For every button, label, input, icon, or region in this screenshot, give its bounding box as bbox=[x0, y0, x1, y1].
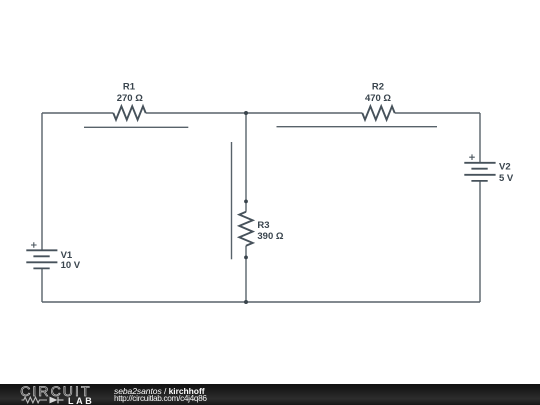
junction dot top node bbox=[244, 111, 248, 115]
R3 bottom terminal dot bbox=[244, 256, 248, 260]
wire R1 to R2 through top junction bbox=[146, 112, 363, 114]
svg-text:R2: R2 bbox=[372, 81, 384, 92]
svg-text:270 Ω: 270 Ω bbox=[117, 93, 143, 104]
svg-text:5 V: 5 V bbox=[499, 173, 514, 184]
footer bar bbox=[0, 384, 540, 405]
wire middle vertical to R3 top bbox=[245, 113, 247, 212]
svg-text:LAB: LAB bbox=[68, 396, 94, 405]
junction dot bottom node bbox=[244, 300, 248, 304]
resistor R1 bbox=[113, 106, 145, 119]
battery V1 plate 4 short bbox=[33, 267, 49, 269]
svg-text:470 Ω: 470 Ω bbox=[365, 93, 391, 104]
wire right vertical V2 top bbox=[479, 113, 481, 163]
logo diode symbol bbox=[50, 397, 58, 404]
battery V1 plate 1 long bbox=[26, 249, 57, 251]
svg-text:R1: R1 bbox=[123, 81, 136, 92]
battery V2 plate 2 short bbox=[471, 168, 487, 170]
CircuitLab logo bbox=[0, 384, 110, 405]
svg-text:10 V: 10 V bbox=[61, 260, 81, 271]
battery V2 plus sign bbox=[469, 154, 475, 160]
battery V2 plate 4 short bbox=[471, 180, 487, 182]
battery V2 plate 1 long bbox=[464, 162, 495, 164]
wire bottom bbox=[42, 301, 480, 303]
logo resistor squiggle bbox=[22, 397, 48, 403]
battery V1 plate 3 long bbox=[26, 261, 57, 263]
wire top-left (node A to R1) bbox=[42, 112, 113, 114]
battery V2 plate 3 long bbox=[464, 174, 495, 176]
svg-text:V2: V2 bbox=[499, 162, 511, 173]
wire left vertical V1 bottom bbox=[41, 268, 43, 302]
resistor R2 bbox=[362, 106, 394, 119]
wire middle vertical R3 bottom bbox=[245, 246, 247, 302]
wire right vertical V2 bottom bbox=[479, 181, 481, 302]
battery V1 plate 2 short bbox=[33, 255, 49, 257]
annotation line under R2 bbox=[277, 126, 438, 128]
resistor R3 bbox=[239, 212, 252, 246]
svg-text:R3: R3 bbox=[257, 220, 269, 231]
wire left vertical V1 top bbox=[41, 113, 43, 250]
svg-text:390 Ω: 390 Ω bbox=[257, 231, 283, 242]
annotation line under R1 bbox=[84, 126, 188, 128]
wire R2 to top-right corner bbox=[395, 112, 480, 114]
credit text bbox=[113, 384, 115, 386]
annotation line left of R3 bbox=[231, 142, 233, 259]
battery V1 plus sign bbox=[31, 242, 37, 248]
R3 top terminal dot bbox=[244, 200, 248, 204]
